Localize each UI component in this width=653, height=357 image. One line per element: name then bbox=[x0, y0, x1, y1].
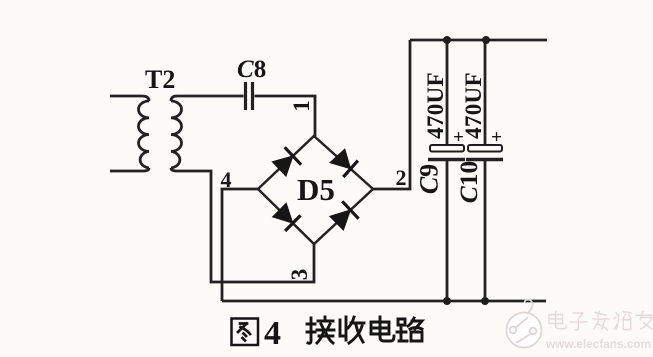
svg-text:+: + bbox=[491, 127, 502, 148]
svg-text:1: 1 bbox=[289, 100, 314, 112]
svg-text:C8: C8 bbox=[237, 56, 266, 83]
svg-text:4: 4 bbox=[221, 167, 232, 192]
svg-text:www.elecfans.com: www.elecfans.com bbox=[545, 337, 651, 351]
svg-text:3: 3 bbox=[287, 269, 312, 281]
svg-text:C10: C10 bbox=[454, 161, 483, 204]
svg-text:4: 4 bbox=[264, 315, 281, 352]
svg-text:470UF: 470UF bbox=[461, 72, 486, 139]
svg-text:470UF: 470UF bbox=[423, 72, 448, 139]
svg-text:T2: T2 bbox=[145, 65, 175, 94]
svg-text:D5: D5 bbox=[297, 172, 335, 207]
svg-text:2: 2 bbox=[396, 165, 407, 190]
svg-text:C9: C9 bbox=[415, 164, 444, 194]
